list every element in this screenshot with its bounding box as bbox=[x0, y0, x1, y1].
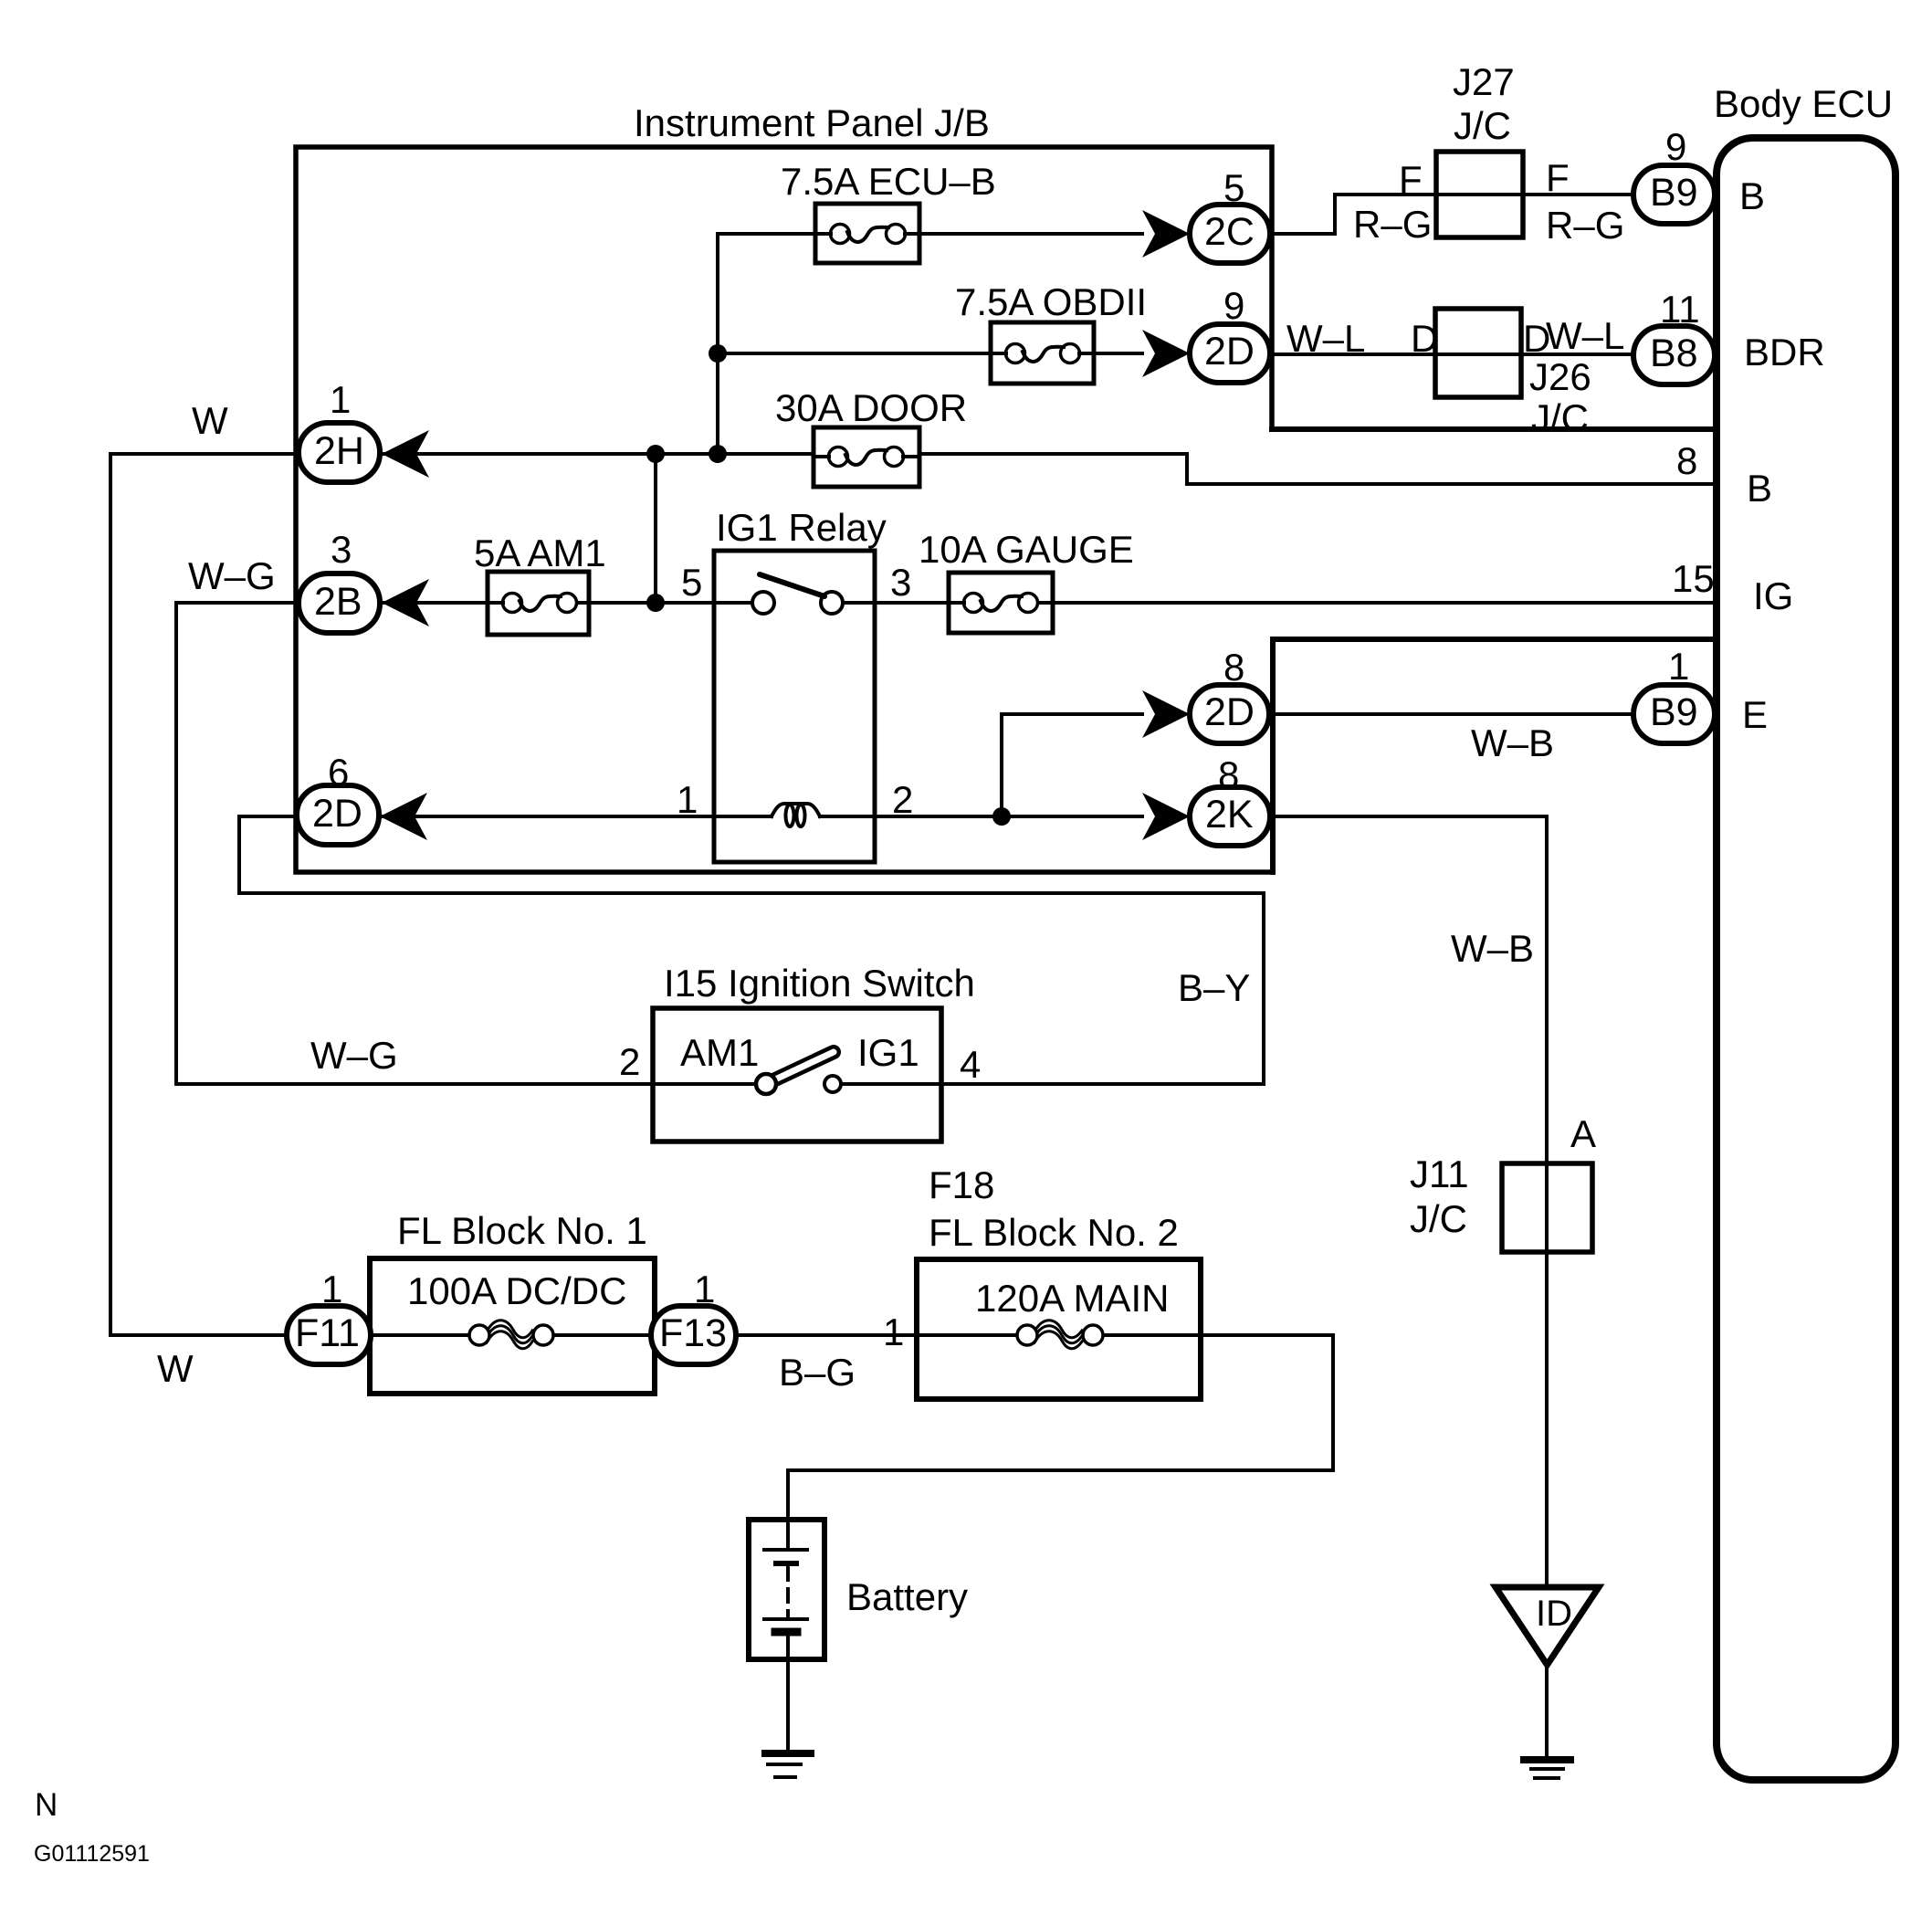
connector oval B8 bbox=[1633, 288, 1715, 384]
junction block J27 bbox=[1436, 60, 1523, 237]
svg-text:7.5A ECU–B: 7.5A ECU–B bbox=[781, 160, 996, 203]
svg-text:5: 5 bbox=[681, 561, 702, 604]
junction dot A bbox=[646, 445, 665, 463]
relay IG1 box bbox=[714, 506, 887, 862]
ignition switch contact AM1 bbox=[756, 1074, 776, 1094]
svg-text:B9: B9 bbox=[1650, 171, 1698, 215]
svg-text:2C: 2C bbox=[1204, 210, 1255, 254]
FL Block No.1 box bbox=[370, 1209, 655, 1394]
svg-text:2: 2 bbox=[892, 778, 913, 821]
ignition switch I15 box bbox=[619, 962, 981, 1142]
svg-text:2: 2 bbox=[619, 1040, 640, 1083]
svg-text:F11: F11 bbox=[295, 1311, 360, 1355]
battery internals bbox=[764, 1520, 807, 1753]
svg-text:W–G: W–G bbox=[310, 1034, 398, 1077]
svg-text:2B: 2B bbox=[314, 580, 362, 624]
junction dot C bbox=[709, 344, 727, 363]
svg-text:5A AM1: 5A AM1 bbox=[474, 531, 606, 574]
svg-text:FL Block No. 2: FL Block No. 2 bbox=[929, 1211, 1179, 1254]
ignition switch contact IG1 bbox=[824, 1076, 841, 1092]
svg-text:4: 4 bbox=[960, 1043, 981, 1086]
svg-text:B8: B8 bbox=[1650, 332, 1698, 375]
svg-text:100A DC/DC: 100A DC/DC bbox=[407, 1269, 626, 1312]
ignition switch blade bbox=[773, 1052, 834, 1080]
svg-text:2D: 2D bbox=[1204, 330, 1255, 374]
svg-text:2K: 2K bbox=[1205, 793, 1254, 837]
svg-text:I15 Ignition Switch: I15 Ignition Switch bbox=[664, 962, 975, 1005]
wire ECU-B fuse row bbox=[718, 232, 1142, 236]
svg-text:5: 5 bbox=[1223, 166, 1244, 209]
arrow into 2C bbox=[1142, 210, 1190, 258]
svg-text:IG1: IG1 bbox=[857, 1031, 919, 1074]
connector oval 2C bbox=[1190, 166, 1270, 263]
connector oval B9 top bbox=[1633, 125, 1715, 224]
svg-text:B–G: B–G bbox=[779, 1351, 856, 1394]
wire W-G vertical bbox=[174, 603, 178, 1084]
ground under ID bbox=[1524, 1760, 1570, 1778]
svg-text:FL Block No. 1: FL Block No. 1 bbox=[397, 1209, 647, 1252]
svg-text:2H: 2H bbox=[314, 429, 364, 473]
wire ID triangle to ground bbox=[1545, 1665, 1549, 1757]
wire coil junction to 2K bbox=[1002, 815, 1142, 818]
svg-text:J/C: J/C bbox=[1410, 1197, 1467, 1240]
wire B bus thick J/C row to ECU bbox=[1272, 426, 1717, 432]
ground ID triangle bbox=[1496, 1587, 1599, 1665]
svg-text:2D: 2D bbox=[1204, 690, 1255, 734]
wire 2C to J27 to B9 bbox=[1270, 195, 1639, 234]
svg-text:1: 1 bbox=[677, 778, 698, 821]
Instrument Panel J/B box bbox=[296, 147, 1273, 872]
junction dot D bbox=[646, 594, 665, 612]
svg-text:B–Y: B–Y bbox=[1178, 966, 1250, 1009]
fusible link 120A symbol bbox=[919, 1321, 1198, 1349]
relay switch blade bbox=[760, 574, 824, 596]
svg-text:1: 1 bbox=[321, 1268, 342, 1310]
wire 2B/AM1/relay/GAUGE/IG row left part bbox=[176, 601, 753, 605]
wire 2D(9) to J26 to B8 bbox=[1270, 353, 1639, 356]
wire 2K to W-B vertical down to ground bbox=[1270, 816, 1547, 1587]
arrow into 2B bbox=[382, 579, 429, 626]
wire OBDII row bbox=[718, 352, 1142, 355]
svg-text:120A MAIN: 120A MAIN bbox=[975, 1277, 1169, 1320]
relay switch contact left bbox=[752, 592, 774, 614]
svg-text:J/C: J/C bbox=[1454, 104, 1511, 147]
fuse 10A GAUGE bbox=[919, 528, 1134, 633]
battery ground bbox=[765, 1753, 811, 1777]
connector oval F13 bbox=[651, 1268, 736, 1364]
svg-text:10A GAUGE: 10A GAUGE bbox=[919, 528, 1134, 571]
svg-text:IG: IG bbox=[1753, 574, 1793, 617]
svg-text:1: 1 bbox=[883, 1310, 904, 1353]
svg-text:15: 15 bbox=[1672, 557, 1715, 600]
wire W-B thick E-row bus to ECU and down to J/B bottom bbox=[1273, 639, 1717, 872]
svg-text:8: 8 bbox=[1218, 753, 1239, 796]
svg-text:7.5A OBDII: 7.5A OBDII bbox=[955, 280, 1147, 323]
svg-text:F18: F18 bbox=[929, 1163, 994, 1206]
svg-text:W: W bbox=[157, 1347, 194, 1390]
svg-text:W–L: W–L bbox=[1286, 317, 1365, 360]
svg-text:N: N bbox=[35, 1787, 58, 1823]
fuse 7.5A ECU-B bbox=[781, 160, 996, 263]
svg-text:J/C: J/C bbox=[1531, 396, 1589, 439]
svg-text:9: 9 bbox=[1665, 125, 1686, 168]
svg-text:J26: J26 bbox=[1529, 355, 1591, 398]
svg-text:B: B bbox=[1747, 467, 1772, 510]
connector oval B9 E bbox=[1633, 645, 1715, 743]
svg-text:W–L: W–L bbox=[1546, 314, 1624, 357]
svg-text:1: 1 bbox=[330, 378, 351, 421]
svg-text:A: A bbox=[1570, 1112, 1596, 1155]
svg-text:D: D bbox=[1411, 317, 1438, 360]
fusible link 100A symbol bbox=[373, 1321, 652, 1349]
svg-text:1: 1 bbox=[694, 1268, 715, 1310]
connector oval 2D pin9 bbox=[1190, 284, 1270, 383]
junction block J26 bbox=[1435, 309, 1591, 439]
svg-text:8: 8 bbox=[1676, 439, 1697, 482]
svg-text:R–G: R–G bbox=[1353, 203, 1432, 246]
wire 2D(6) relay coil row bbox=[239, 815, 1142, 818]
svg-text:W–B: W–B bbox=[1471, 721, 1554, 764]
svg-text:2D: 2D bbox=[312, 792, 362, 836]
fuse 7.5A OBDII bbox=[955, 280, 1147, 384]
junction dot B bbox=[709, 445, 727, 463]
arrow into 2D pin6 bbox=[380, 793, 427, 840]
svg-text:1: 1 bbox=[1668, 645, 1689, 688]
wire battery feed F11/F13/B-G row bbox=[110, 1335, 1333, 1520]
connector oval 2D pin8 bbox=[1190, 646, 1269, 743]
svg-text:Body ECU: Body ECU bbox=[1714, 82, 1893, 125]
svg-text:J27: J27 bbox=[1453, 60, 1515, 103]
connector oval 2D pin6 bbox=[297, 751, 379, 845]
svg-text:B9: B9 bbox=[1650, 690, 1698, 734]
svg-text:9: 9 bbox=[1223, 284, 1244, 327]
wire W vertical down to F11 row bbox=[109, 454, 112, 1335]
svg-text:3: 3 bbox=[331, 528, 352, 571]
FL Block No.2 box bbox=[883, 1163, 1201, 1399]
svg-text:30A DOOR: 30A DOOR bbox=[775, 386, 967, 429]
wire relay pin3 to GAUGE to ECU IG bbox=[842, 601, 1717, 605]
svg-text:E: E bbox=[1742, 693, 1768, 736]
connector oval F11 bbox=[287, 1268, 371, 1364]
battery box bbox=[749, 1520, 968, 1659]
junction dot E bbox=[992, 807, 1011, 826]
wire ECU-B fuse feed vertical bbox=[716, 234, 719, 454]
Body ECU box bbox=[1717, 138, 1895, 1780]
arrow into 2D pin9 bbox=[1142, 330, 1190, 377]
connector oval 2K bbox=[1190, 753, 1270, 846]
wire 2H/DOOR/B row bbox=[110, 454, 1717, 484]
svg-text:AM1: AM1 bbox=[680, 1031, 759, 1074]
svg-text:Battery: Battery bbox=[846, 1575, 968, 1618]
fuse 5A AM1 bbox=[474, 531, 606, 635]
svg-text:ID: ID bbox=[1536, 1594, 1572, 1634]
relay switch contact right bbox=[821, 592, 843, 614]
connector oval 2H bbox=[299, 378, 380, 482]
svg-text:J11: J11 bbox=[1410, 1152, 1469, 1195]
svg-text:11: 11 bbox=[1660, 288, 1700, 331]
arrow into 2K bbox=[1142, 793, 1190, 840]
relay coil bbox=[772, 804, 820, 826]
svg-text:F13: F13 bbox=[659, 1311, 727, 1355]
arrow into 2H bbox=[382, 430, 429, 478]
svg-text:3: 3 bbox=[890, 561, 911, 604]
svg-text:6: 6 bbox=[328, 751, 349, 794]
fuse 30A DOOR bbox=[775, 386, 967, 487]
wire ignition switch pin4 row to B-Y loop bbox=[239, 816, 1264, 1084]
svg-text:R–G: R–G bbox=[1546, 204, 1624, 247]
wire vertical 786-718 taps bbox=[654, 454, 657, 603]
wire ignition switch pin2 row bbox=[176, 1082, 757, 1086]
svg-text:F: F bbox=[1546, 156, 1570, 199]
svg-text:IG1 Relay: IG1 Relay bbox=[716, 506, 887, 549]
svg-text:W: W bbox=[192, 399, 228, 442]
connector oval 2B bbox=[299, 528, 380, 633]
wire E row 2D(8) to B9 bbox=[1269, 712, 1639, 716]
svg-text:W–B: W–B bbox=[1451, 927, 1534, 970]
svg-text:W–G: W–G bbox=[188, 554, 276, 597]
svg-text:Instrument Panel J/B: Instrument Panel J/B bbox=[634, 101, 990, 144]
svg-text:BDR: BDR bbox=[1744, 331, 1825, 374]
svg-text:G01112591: G01112591 bbox=[34, 1841, 150, 1867]
svg-text:8: 8 bbox=[1223, 646, 1244, 689]
svg-text:F: F bbox=[1399, 158, 1423, 201]
junction block J11 bbox=[1410, 1112, 1596, 1252]
arrow into 2D pin8 bbox=[1142, 690, 1190, 738]
svg-text:B: B bbox=[1739, 174, 1765, 217]
wire junction up to 2D(8) row bbox=[1002, 714, 1142, 816]
